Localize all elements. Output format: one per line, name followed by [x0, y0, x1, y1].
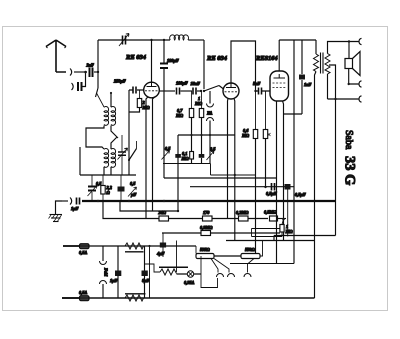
Feld (field coil) terminals [100, 246, 109, 298]
svg-text:MΩ: MΩ [194, 101, 203, 106]
capacitor (block) on 178 line [175, 154, 181, 158]
tuning coil L1 (secondary) [111, 106, 116, 125]
fuse 0,5A (top) [79, 244, 89, 255]
bottom wire of input stage [80, 174, 136, 176]
speaker terminal 1 [359, 38, 361, 44]
wire: row 240 [226, 240, 315, 242]
svg-text:0,5A: 0,5A [79, 250, 87, 255]
node [348, 40, 350, 42]
svg-text:0,5MΩ: 0,5MΩ [264, 210, 277, 215]
svg-text:0,3MΩ: 0,3MΩ [200, 225, 213, 230]
variable capacitor (tuning) [118, 135, 128, 175]
resistor 1 MOhm [194, 91, 204, 164]
wire: rail down to detector switch [203, 40, 205, 89]
wire [278, 218, 287, 220]
resistor 2,2 Ohm [101, 175, 113, 201]
transformer secondary bottom lead [327, 74, 329, 99]
capacitor 100pF [176, 81, 188, 95]
capacitor 2nF [86, 63, 95, 78]
wire: coupling loop left [86, 126, 104, 150]
wire: bus drop junctions [97, 200, 99, 202]
switch contact [128, 141, 137, 161]
svg-text:550Ω: 550Ω [245, 247, 255, 252]
svg-text:Ω: Ω [107, 190, 111, 195]
wire: coil bottoms to bottom wire [104, 167, 111, 175]
svg-text:0,5µF: 0,5µF [295, 192, 306, 197]
svg-text:535Ω: 535Ω [200, 247, 210, 252]
wire: screen vertical [293, 40, 295, 264]
svg-text:1nF: 1nF [304, 82, 312, 87]
svg-text:RES164: RES164 [255, 55, 278, 62]
capacitor 0,5uF (block) [118, 175, 137, 201]
output transformer primary winding [314, 54, 319, 72]
tuning coil L2 (secondary) [111, 148, 116, 167]
tube V2 heater legs [227, 99, 230, 219]
wire: antenna node down to switch [97, 72, 99, 88]
node: 180pF drop [163, 39, 165, 41]
capacitor 5nF (coupling to V3) [253, 81, 270, 95]
output transformer secondary winding [325, 54, 330, 75]
wire: tap to terminal 3 [328, 98, 359, 100]
tuning coil L2 (primary) [104, 148, 109, 167]
switch contact (detector) [200, 90, 202, 92]
svg-text:5nF: 5nF [253, 81, 261, 86]
capacitor (2nd input) [78, 82, 82, 91]
resistor 170 [203, 210, 213, 221]
wire: vertical from antenna node up to top rail [97, 40, 99, 72]
speaker terminal 3 [359, 96, 361, 102]
transformer secondary top lead [328, 42, 359, 54]
svg-text:2nF: 2nF [86, 63, 95, 68]
V3 legs [276, 101, 278, 264]
wire: audio line 187 [190, 186, 294, 188]
svg-text:4µF: 4µF [156, 251, 165, 256]
fuse 0,5A (bottom) [79, 290, 89, 301]
svg-text:1µF: 1µF [110, 278, 118, 283]
wire to coil L1 [97, 93, 105, 107]
svg-text:MΩ: MΩ [241, 133, 250, 138]
tube V3 RES164 (pentode) [270, 71, 289, 101]
capacitor (block) on 201.5 line [199, 154, 205, 158]
wire: row 233 [162, 232, 280, 234]
svg-text:MΩ: MΩ [175, 113, 184, 118]
wire: bias network [252, 229, 283, 237]
resistor 0,2MOhm [236, 210, 249, 221]
capacitor 250pF (grid V1) [113, 79, 136, 94]
wire [169, 218, 203, 220]
svg-text:Feld: Feld [104, 268, 109, 277]
resistor 1MOhm (vertical) [280, 219, 293, 237]
top rail [98, 39, 170, 41]
svg-text:RE 034: RE 034 [206, 55, 228, 62]
variable cap 0,5uF (left) [88, 175, 103, 201]
wire: under-bus feed 2 [103, 201, 159, 219]
svg-text:µF: µF [130, 192, 136, 197]
wire: lower grid bus [178, 134, 235, 136]
svg-text:1µF: 1µF [71, 206, 79, 211]
wire: AVC divider drop [255, 91, 257, 130]
wire: anode rail to output transformer [279, 39, 316, 41]
transformer tap [329, 65, 336, 99]
svg-text:0,5: 0,5 [210, 147, 216, 152]
antenna jack [70, 69, 72, 76]
svg-text:MΩ: MΩ [142, 105, 151, 110]
wire: screen return [230, 263, 294, 265]
node [254, 90, 256, 92]
svg-text:180µF: 180µF [167, 58, 179, 63]
resistor 0,1 MOhm [181, 151, 194, 161]
wire: cathode line [284, 113, 303, 115]
wire: V2 anode up and over [231, 41, 256, 91]
wire [197, 90, 200, 92]
wire: AF coupling row [163, 164, 256, 176]
capacitor 4uF [156, 233, 166, 257]
tuning coil L1 (primary) [104, 106, 109, 125]
wire: vertical grid return [128, 90, 130, 175]
heater resistor (zigzag) [145, 241, 189, 276]
svg-text:RE 034: RE 034 [125, 54, 147, 61]
variable capacitor 0,5 (on FA line) [207, 147, 217, 161]
switch blade [204, 86, 219, 92]
resistor 0,3MOhm [200, 225, 213, 236]
wire [248, 218, 268, 220]
resistor 535 Ohm [196, 246, 214, 259]
wire: row 235 right [274, 201, 336, 241]
heater jacks (sockets) [217, 274, 252, 278]
FA jack (frame antenna) [207, 91, 214, 164]
svg-text:24Ω: 24Ω [158, 210, 167, 215]
svg-text:0,35A: 0,35A [184, 280, 195, 285]
wire to tube V2 grid [219, 86, 224, 90]
wire [74, 71, 87, 73]
svg-text:250µF: 250µF [113, 79, 126, 84]
svg-text:0,5: 0,5 [130, 181, 136, 186]
resistor 24 Ohm [158, 210, 169, 221]
dropper resistor (top zigzag) [125, 243, 144, 252]
svg-text:Saba: Saba [343, 130, 354, 150]
resistor 0,6 MOhm [241, 128, 258, 254]
capacitor 0,5uF (block audio) [285, 184, 306, 237]
capacitor 180pF (anode blocking) [160, 40, 179, 178]
svg-text:33 G: 33 G [342, 156, 358, 185]
wire: under-bus feed 1 [120, 201, 178, 211]
power wire top [63, 245, 196, 247]
svg-text:100µF: 100µF [176, 81, 188, 86]
ground [49, 215, 63, 222]
svg-text:0,2MΩ: 0,2MΩ [236, 210, 249, 215]
lamp return loop [201, 256, 218, 288]
wire: L1 sec top stub [110, 93, 112, 107]
wire [181, 90, 193, 92]
wire antenna to jack [56, 71, 66, 73]
trimmer capacitor on rail [119, 34, 129, 47]
ground capacitor 1uF with jack [56, 198, 80, 215]
wire [94, 71, 98, 73]
capacitor 0,5uF (audio) [266, 183, 277, 196]
tube V1 RE034 [144, 40, 160, 98]
wire: audio line 178 [164, 177, 277, 179]
wire [212, 218, 239, 220]
wire: heater feed vertical [149, 246, 151, 298]
node A (antenna junction) [97, 71, 99, 73]
wire: V1 anode to coupling caps [159, 90, 175, 92]
resistor 0,5MOhm [264, 210, 278, 222]
wire: B+ vertical to bus end [335, 99, 337, 201]
svg-text:0,5µF: 0,5µF [266, 191, 277, 196]
svg-text:MΩ: MΩ [181, 156, 190, 161]
capacitor 8uF (supply) [142, 246, 150, 298]
wire: V3 anode up [278, 40, 280, 71]
tube V2 RE034 [223, 83, 239, 99]
svg-text:MΩ: MΩ [285, 229, 294, 234]
transformer primary leads [315, 40, 317, 298]
svg-text:0,5: 0,5 [165, 146, 171, 151]
dropper resistor (bottom zigzag) [125, 294, 146, 301]
svg-text:10nF: 10nF [191, 81, 201, 86]
transformer core [321, 53, 324, 74]
capacitor 10nF [191, 81, 201, 95]
switch (waveband) [96, 88, 99, 97]
antenna [46, 40, 66, 72]
node [84, 71, 87, 74]
svg-text:8µF: 8µF [142, 278, 150, 283]
speaker terminal 2 [359, 81, 361, 87]
dial lamp [177, 271, 202, 285]
svg-text:170: 170 [203, 210, 210, 215]
speaker [345, 42, 360, 86]
svg-text:FA: FA [207, 111, 212, 116]
wire [83, 72, 86, 87]
wire: grid V1 [129, 89, 144, 91]
grid leak resistor 2MOhm [129, 90, 150, 112]
second jack [72, 83, 74, 90]
HF choke coil on rail [170, 35, 189, 40]
power wire bottom [62, 297, 315, 299]
node: tube V1 anode on rail [150, 39, 152, 41]
resistor 550 Ohm [214, 241, 263, 259]
grid resistor 0,7 MOhm [175, 91, 194, 164]
svg-text:0,5A: 0,5A [79, 290, 87, 295]
resistor 0,5 MOhm (grid leak V3) [263, 91, 270, 188]
main ground bus [82, 200, 336, 202]
variable capacitor 0,5 (left, on 164 line) [162, 146, 172, 160]
capacitor 1nF (anode) [299, 40, 312, 114]
rail continues [188, 39, 204, 41]
tube V1 heater legs [146, 97, 148, 219]
capacitor 1uF (supply) [110, 246, 121, 298]
heater tap leads [211, 259, 254, 273]
wire: crossover diagonal [111, 126, 118, 150]
